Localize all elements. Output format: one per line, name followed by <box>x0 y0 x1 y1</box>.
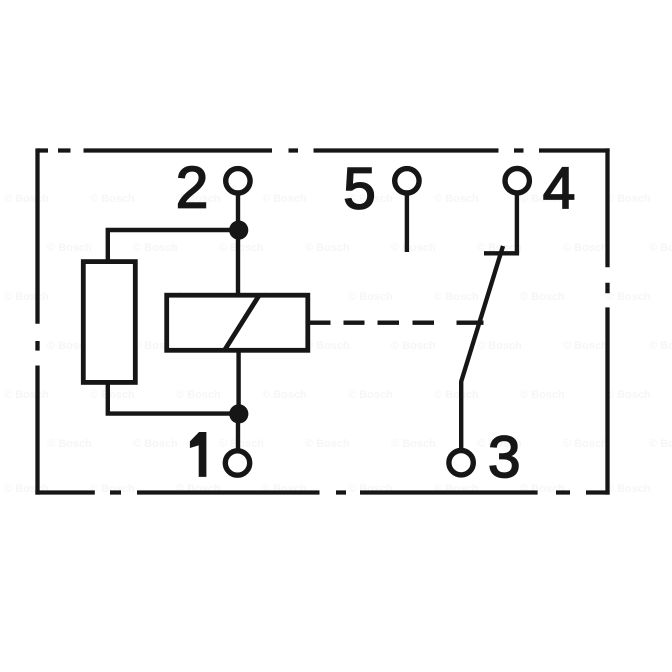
svg-text:4: 4 <box>543 156 576 221</box>
svg-text:© Bosch: © Bosch <box>348 389 393 401</box>
svg-text:© Bosch: © Bosch <box>391 438 436 450</box>
frame bottom border (dash-dot) <box>35 490 609 494</box>
svg-text:© Bosch: © Bosch <box>47 438 92 450</box>
terminal 4 circle <box>505 169 529 193</box>
svg-text:© Bosch: © Bosch <box>219 438 264 450</box>
svg-text:© Bosch: © Bosch <box>477 340 522 352</box>
svg-text:© Bosch: © Bosch <box>262 193 307 205</box>
svg-text:© Bosch: © Bosch <box>606 483 651 495</box>
svg-text:© Bosch: © Bosch <box>90 389 135 401</box>
svg-text:© Bosch: © Bosch <box>305 438 350 450</box>
svg-text:© Bosch: © Bosch <box>649 340 672 352</box>
switch arm <box>461 246 503 449</box>
junction dot top <box>229 221 248 240</box>
svg-text:© Bosch: © Bosch <box>176 389 221 401</box>
svg-text:© Bosch: © Bosch <box>4 193 49 205</box>
terminal 3 circle <box>449 451 473 475</box>
switch fixed contact bar <box>484 251 519 255</box>
frame right border (dash-dot) <box>605 148 609 494</box>
terminal 1 circle <box>225 451 249 475</box>
svg-text:© Bosch: © Bosch <box>219 242 264 254</box>
terminal 5 circle <box>395 169 419 193</box>
svg-text:© Bosch: © Bosch <box>434 193 479 205</box>
svg-text:© Bosch: © Bosch <box>649 242 672 254</box>
svg-text:© Bosch: © Bosch <box>563 438 608 450</box>
svg-text:© Bosch: © Bosch <box>563 242 608 254</box>
svg-text:3: 3 <box>488 425 521 490</box>
svg-text:© Bosch: © Bosch <box>606 193 651 205</box>
svg-text:© Bosch: © Bosch <box>133 438 178 450</box>
svg-text:© Bosch: © Bosch <box>305 340 350 352</box>
wire junction bottom to terminal1 <box>236 414 240 451</box>
label 1 <box>191 433 206 477</box>
wire terminal2 to coil top <box>236 195 240 296</box>
frame top border (dash-dot) <box>38 148 610 152</box>
svg-text:© Bosch: © Bosch <box>520 389 565 401</box>
wire terminal4 down <box>515 195 519 253</box>
junction dot bottom <box>229 404 248 423</box>
svg-text:© Bosch: © Bosch <box>262 389 307 401</box>
svg-text:© Bosch: © Bosch <box>133 242 178 254</box>
svg-text:© Bosch: © Bosch <box>606 291 651 303</box>
frame left border (dash-dot) <box>35 148 39 494</box>
svg-text:2: 2 <box>176 156 209 221</box>
svg-text:© Bosch: © Bosch <box>606 389 651 401</box>
actuator dashed link <box>310 321 484 325</box>
svg-text:© Bosch: © Bosch <box>305 242 350 254</box>
svg-text:© Bosch: © Bosch <box>434 291 479 303</box>
svg-text:© Bosch: © Bosch <box>4 389 49 401</box>
wire coil bottom to junction bottom <box>236 351 240 414</box>
svg-text:© Bosch: © Bosch <box>47 242 92 254</box>
svg-text:© Bosch: © Bosch <box>4 291 49 303</box>
watermark tiles <box>4 193 672 495</box>
svg-text:© Bosch: © Bosch <box>90 193 135 205</box>
wire junction top to left branch <box>108 230 239 263</box>
svg-text:© Bosch: © Bosch <box>391 340 436 352</box>
relay coil K <box>167 294 308 351</box>
svg-text:5: 5 <box>343 156 376 221</box>
svg-text:© Bosch: © Bosch <box>649 438 672 450</box>
svg-text:© Bosch: © Bosch <box>348 291 393 303</box>
svg-text:© Bosch: © Bosch <box>520 291 565 303</box>
wire terminal5 stub <box>405 194 409 252</box>
svg-text:© Bosch: © Bosch <box>391 242 436 254</box>
wire resistor bottom to junction bottom <box>108 380 239 414</box>
resistor R <box>83 262 135 383</box>
svg-text:© Bosch: © Bosch <box>563 340 608 352</box>
svg-text:© Bosch: © Bosch <box>434 389 479 401</box>
terminal 2 circle <box>226 169 250 193</box>
